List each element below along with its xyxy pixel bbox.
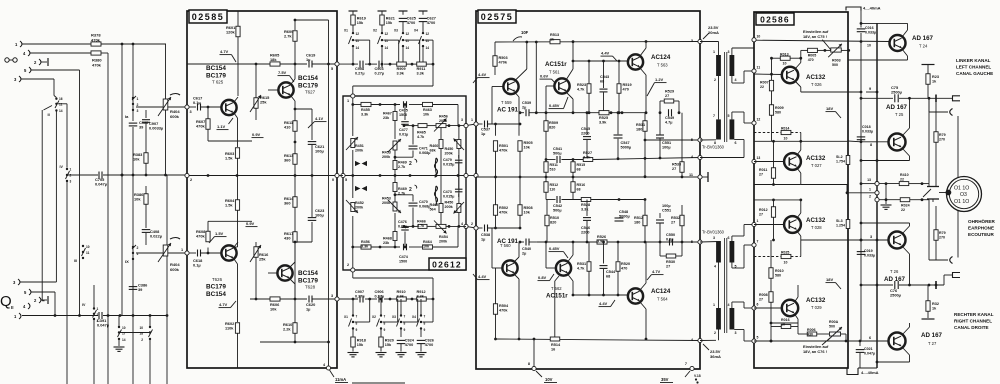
svg-text:470k: 470k (92, 62, 102, 67)
rail y177 inside 02575 (476, 175, 700, 178)
cable symbol (5, 58, 17, 62)
svg-text:AC132: AC132 (806, 297, 826, 304)
svg-text:C907: C907 (355, 290, 364, 294)
svg-text:4: 4 (728, 303, 730, 307)
svg-text:16: 16 (59, 97, 63, 101)
switch above C924 (392, 299, 418, 332)
svg-text:10: 10 (783, 62, 787, 66)
svg-text:11: 11 (385, 39, 389, 43)
capacitor C016 0.033u (857, 26, 876, 34)
svg-text:3.9k: 3.9k (397, 72, 405, 76)
capacitor C627 4700 top bank (419, 11, 436, 33)
wire y200 row pin2 (754, 199, 801, 202)
treble clef lower (435, 186, 438, 205)
svg-text:2.2k: 2.2k (283, 327, 291, 332)
svg-text:7: 7 (404, 315, 406, 319)
wire vertical x133 lower (132, 127, 135, 384)
svg-text:RIGHT CHANNEL: RIGHT CHANNEL (954, 319, 992, 324)
svg-text:5: 5 (345, 178, 347, 182)
node 9 stub (866, 87, 877, 92)
wire pot to box pin 3 (164, 44, 185, 176)
svg-text:R502: R502 (499, 206, 508, 210)
switch below C625 (394, 29, 420, 65)
svg-text:0.45V: 0.45V (549, 103, 560, 108)
svg-text:1: 1 (137, 97, 139, 101)
svg-text:3.3k: 3.3k (417, 295, 425, 299)
svg-text:11: 11 (86, 251, 90, 255)
svg-text:10: 10 (781, 322, 785, 326)
svg-text:R520: R520 (621, 262, 630, 266)
bass symbol upper (355, 161, 367, 166)
svg-text:10k: 10k (423, 113, 430, 117)
svg-text:500µ: 500µ (553, 209, 562, 213)
svg-text:4: 4 (461, 222, 463, 226)
resistor R512b 180 (634, 200, 647, 243)
svg-text:10k: 10k (524, 146, 531, 150)
resistor R455 3.3k (361, 102, 371, 116)
svg-text:6: 6 (757, 303, 759, 307)
svg-text:3.3k: 3.3k (583, 156, 591, 160)
wire switch II flipper left (42, 106, 52, 301)
svg-text:15k: 15k (357, 343, 364, 347)
node pin 4 bottom border 02585 (323, 363, 331, 370)
svg-text:1: 1 (757, 219, 759, 223)
EQ bus bottom y299 (339, 298, 434, 301)
transistor T24 AD167 (890, 35, 906, 51)
label 10uF pointer (513, 30, 529, 41)
svg-text:R012: R012 (759, 208, 768, 212)
wire rows pins 13 1 2 (846, 178, 880, 202)
svg-text:R465: R465 (417, 131, 426, 135)
svg-text:R79: R79 (939, 231, 946, 235)
svg-text:2: 2 (714, 331, 716, 335)
svg-text:3.3k: 3.3k (361, 113, 369, 117)
capacitor C926 4700 bottom bank (416, 329, 434, 357)
resistor R608 470k (196, 221, 252, 253)
wire switch IX to pot lower (136, 252, 163, 254)
capacitor C924 4700 bottom bank (396, 329, 415, 357)
svg-text:200k: 200k (445, 205, 454, 209)
svg-text:C479: C479 (443, 158, 452, 162)
label AC132 T027 (806, 155, 826, 168)
svg-text:0.27µ: 0.27µ (355, 72, 365, 76)
potentiometer R453b 200k (382, 191, 401, 213)
resistor R603 1.5k (225, 148, 240, 176)
svg-text:7: 7 (384, 315, 386, 319)
wire y184 row pin13 (754, 184, 801, 186)
svg-text:02612: 02612 (432, 260, 462, 270)
switch above R920 (372, 299, 398, 332)
label Einstellen upper (803, 29, 831, 50)
svg-text:R509: R509 (549, 121, 558, 125)
capacitor C549 4.7u (665, 109, 674, 124)
transistor T560 AC191 (502, 260, 517, 275)
svg-text:C471: C471 (419, 147, 428, 151)
resistor R386 10k (134, 186, 148, 204)
svg-text:12: 12 (356, 32, 360, 36)
svg-text:12: 12 (757, 118, 761, 122)
svg-text:18V, an C75 !: 18V, an C75 ! (803, 34, 827, 39)
switch II (48, 97, 63, 117)
svg-text:Tr-BV01360: Tr-BV01360 (702, 145, 725, 150)
svg-text:C470: C470 (419, 200, 428, 204)
node pin 3 on 02585 (185, 105, 192, 114)
svg-text:110: 110 (550, 187, 556, 191)
main output bus x877 (876, 23, 879, 368)
capacitor C018 0.033u (857, 125, 873, 140)
rail mid 02612 (343, 174, 466, 177)
svg-text:O1 1O: O1 1O (954, 199, 969, 205)
node pins 02586 left border (752, 34, 760, 42)
label T26 AD167 (884, 269, 906, 283)
svg-text:0.1µ: 0.1µ (193, 100, 201, 105)
svg-text:2200: 2200 (581, 231, 589, 235)
svg-text:R466: R466 (417, 220, 426, 224)
svg-text:3: 3 (713, 236, 715, 240)
svg-text:5: 5 (331, 67, 333, 71)
svg-text:R79: R79 (939, 133, 946, 137)
svg-text:1.754: 1.754 (836, 159, 845, 163)
svg-text:470k: 470k (499, 211, 508, 215)
node 11 ground stub (702, 172, 708, 182)
svg-text:4.7V: 4.7V (219, 302, 228, 307)
capacitor C385 39 (129, 120, 149, 130)
capacitor C546 2200 (581, 200, 591, 243)
svg-text:C474: C474 (399, 255, 409, 259)
svg-text:T 564: T 564 (657, 297, 668, 302)
svg-text:R511: R511 (550, 163, 558, 167)
svg-text:T 026: T 026 (811, 82, 822, 87)
label AD167 T24 (912, 35, 934, 49)
switch III (74, 245, 90, 263)
input terminal 5 (24, 67, 31, 73)
transistor T026 wires (754, 58, 861, 92)
svg-text:R909: R909 (397, 67, 406, 71)
svg-text:36mA: 36mA (710, 354, 721, 359)
svg-text:AC151r: AC151r (545, 61, 567, 68)
svg-text:R531: R531 (636, 123, 645, 127)
svg-text:3.3k: 3.3k (581, 208, 589, 212)
svg-text:3: 3 (331, 294, 333, 298)
transistor T029 wires (754, 285, 798, 324)
svg-text:R453: R453 (382, 197, 391, 201)
svg-text:R504: R504 (499, 304, 509, 308)
svg-text:18V: 18V (826, 106, 833, 111)
label OHRHOERER EARPHONE ECOUTEUR (968, 218, 995, 237)
wire row1 trimmer upper (801, 49, 850, 52)
wire y341 node6 row (754, 336, 889, 342)
connector vertical wires (957, 116, 959, 258)
resistor R79 270 upper (934, 102, 946, 187)
transistor T27 AD167 (889, 333, 906, 350)
svg-text:R508: R508 (524, 206, 533, 210)
svg-text:R455: R455 (361, 108, 370, 112)
svg-text:C541: C541 (553, 147, 562, 151)
label BC154 BC179 T627 (298, 75, 318, 95)
label AC124 T563 (651, 54, 671, 68)
main top rail 02575 y42 (495, 40, 700, 43)
svg-text:R920: R920 (385, 339, 394, 343)
svg-text:R516: R516 (577, 183, 586, 187)
svg-text:T 24: T 24 (919, 44, 928, 49)
input terminal 4 (23, 50, 30, 56)
capacitor C391 0.047u (97, 312, 110, 328)
label AC191 T560 (497, 238, 519, 248)
svg-text:C926: C926 (425, 339, 434, 343)
svg-text:C625: C625 (407, 17, 416, 21)
svg-text:C551: C551 (662, 141, 671, 145)
capacitor C76 2500u wire (861, 281, 944, 298)
label AC151r T561 (545, 61, 567, 75)
wire node5 y140 (644, 139, 700, 142)
label 4.7V upper (220, 49, 237, 62)
wire vertical x108 (107, 53, 109, 384)
resistor R912 3.3k (417, 290, 427, 301)
svg-text:68: 68 (577, 167, 581, 171)
svg-text:410: 410 (284, 125, 291, 130)
svg-text:O3: O3 (960, 192, 967, 198)
svg-text:4: 4 (735, 78, 737, 82)
svg-text:R523: R523 (577, 83, 586, 87)
DIN connector circle (939, 177, 982, 212)
transistor T625 BC154 (221, 100, 236, 115)
capacitor C545 2200 (581, 113, 591, 160)
bottom rail y339 02575 (494, 338, 700, 341)
capacitor C470 0.068u (394, 193, 431, 227)
vertical feed x352 inside 02612 (351, 98, 354, 268)
svg-text:T628: T628 (305, 285, 316, 290)
svg-text:AC 191: AC 191 (497, 107, 519, 114)
svg-text:Tr-BV01360: Tr-BV01360 (702, 230, 725, 235)
svg-text:0.6V: 0.6V (540, 74, 549, 79)
wire x536 link (535, 42, 538, 114)
wire terminal4 (30, 52, 108, 54)
switch IX (125, 245, 139, 264)
label 4.4V upper left (473, 72, 490, 83)
svg-text:27: 27 (759, 172, 763, 176)
svg-text:9: 9 (404, 328, 406, 332)
svg-text:180: 180 (634, 221, 640, 225)
earphone jack plug top (929, 95, 960, 103)
svg-text:1500: 1500 (399, 113, 407, 117)
svg-text:4....40mA: 4....40mA (861, 370, 879, 375)
svg-text:100µ: 100µ (662, 204, 671, 208)
resistor R520 470 (616, 242, 630, 295)
resistor R509 820 (544, 113, 558, 159)
label 23.5V 20mA (703, 25, 719, 39)
svg-text:25k: 25k (260, 100, 267, 105)
potentiometer R616 25k (250, 242, 269, 299)
svg-text:C477: C477 (399, 128, 408, 132)
resistor R510 820 (545, 200, 559, 243)
label 4.4V lower left (473, 274, 490, 280)
svg-text:R528: R528 (581, 203, 590, 207)
resistor R465 4.7k (417, 124, 427, 139)
svg-text:9: 9 (424, 328, 426, 332)
transistor T25 wires (861, 98, 910, 160)
svg-text:C475: C475 (399, 109, 408, 113)
resistor R516 68 (571, 177, 585, 200)
svg-text:68: 68 (600, 80, 604, 84)
label AC132 T028 (806, 217, 826, 230)
module box 02575 (476, 10, 700, 369)
svg-text:R451: R451 (355, 144, 364, 148)
svg-text:R532: R532 (671, 216, 680, 220)
svg-text:R513: R513 (550, 33, 559, 37)
svg-text:R525: R525 (599, 116, 608, 120)
resistor R503 470k (493, 42, 508, 75)
svg-text:1: 1 (70, 168, 72, 172)
svg-text:X4: X4 (414, 29, 418, 33)
input terminal 1 lower (14, 313, 21, 319)
svg-text:12: 12 (385, 32, 389, 36)
capacitor C476 0.01u (398, 220, 409, 247)
svg-text:C906: C906 (375, 290, 384, 294)
capacitor C544 68 (600, 242, 616, 295)
resistor R016 10 (771, 318, 798, 329)
svg-text:13: 13 (757, 156, 761, 160)
label 1.1V (217, 118, 234, 130)
svg-text:270: 270 (939, 235, 945, 239)
svg-text:6: 6 (728, 236, 730, 240)
svg-text:BC154: BC154 (206, 291, 226, 298)
svg-text:OHRHÖRER: OHRHÖRER (968, 218, 995, 224)
svg-text:BC179: BC179 (206, 73, 226, 80)
node pin 5 on 02585 right y64 (331, 62, 339, 71)
svg-text:13: 13 (867, 178, 871, 182)
label W8 dots (694, 374, 701, 384)
label 4.1V (308, 116, 327, 128)
chain y125 upper with R465 and pot R456 (403, 124, 466, 127)
capacitor C619 1u (306, 53, 337, 68)
svg-text:27: 27 (759, 297, 763, 301)
svg-text:4.4V: 4.4V (478, 72, 487, 77)
wire y141 T25 base (848, 140, 889, 147)
svg-text:R468: R468 (383, 237, 392, 241)
resistor R32 1k (922, 285, 939, 319)
resistor R619 15k top bank (349, 11, 366, 33)
svg-text:3.3k: 3.3k (361, 245, 369, 249)
svg-text:IV: IV (60, 165, 64, 169)
svg-text:EARPHONE: EARPHONE (968, 226, 994, 231)
svg-text:T 563: T 563 (657, 63, 668, 68)
svg-text:0.27µ: 0.27µ (355, 295, 365, 299)
potentiometer R456 200k (434, 115, 448, 132)
resistor R918 15k bottom bank (348, 329, 366, 357)
svg-text:T 562: T 562 (551, 286, 562, 291)
loop 27 resistor upper (659, 101, 681, 114)
resistor R511 510 (544, 160, 558, 178)
svg-text:1500: 1500 (399, 260, 407, 264)
capacitor C475 1500 (399, 101, 408, 117)
resistor R23 1k (922, 65, 939, 99)
svg-text:27: 27 (672, 167, 676, 171)
svg-text:C016: C016 (865, 26, 874, 30)
svg-text:C021: C021 (864, 347, 873, 351)
wire x847 segment (846, 184, 848, 193)
node pins y228 between boxes (461, 222, 478, 230)
svg-text:23k: 23k (383, 241, 390, 245)
capacitor C547 5000u (614, 111, 632, 158)
svg-text:7: 7 (757, 240, 759, 244)
label Einstellen lower (803, 338, 830, 354)
resistor R508 10k (518, 177, 533, 228)
svg-text:10: 10 (867, 44, 871, 48)
label AD167 T25 (886, 104, 908, 117)
resistor R606 10k (270, 297, 280, 312)
svg-text:R505: R505 (524, 141, 533, 145)
svg-text:R32: R32 (932, 302, 939, 306)
svg-text:IV: IV (82, 303, 86, 307)
resistor R514 16 (550, 337, 561, 352)
svg-text:R910: R910 (397, 290, 406, 294)
resistor R009 580 (769, 105, 783, 141)
svg-text:180: 180 (636, 128, 642, 132)
svg-text:C019: C019 (864, 249, 873, 253)
wire y64 inside 02585 (187, 63, 307, 66)
svg-text:8: 8 (384, 322, 386, 326)
resistor R532b 27 (671, 205, 684, 242)
label T626 BC179 BC154 (206, 277, 226, 298)
component Si-3 1254 (836, 219, 850, 229)
ground pin2 row (881, 184, 892, 210)
svg-text:R514: R514 (551, 343, 561, 347)
svg-text:R011: R011 (759, 168, 767, 172)
mid wire y242 dots (545, 241, 684, 244)
svg-text:Si-3: Si-3 (836, 219, 843, 223)
capacitor C625 4700 top bank (399, 11, 416, 33)
svg-text:R469: R469 (398, 161, 407, 165)
svg-text:35V: 35V (661, 377, 669, 382)
resistor R610 2.2k (283, 299, 297, 342)
svg-text:R016: R016 (781, 318, 790, 322)
resistor R010 580 (769, 240, 784, 292)
wire x860 lower (0, 0, 1, 1)
svg-text:120k: 120k (226, 30, 235, 35)
transistor T26 AD167 (889, 232, 906, 249)
svg-text:4....40mA: 4....40mA (863, 6, 881, 11)
resistor R008 27 (759, 292, 773, 343)
transistor T027 wires (754, 140, 848, 185)
svg-text:5: 5 (757, 336, 759, 340)
svg-text:1: 1 (869, 187, 871, 191)
svg-text:200k: 200k (439, 240, 448, 244)
mid wire y242 02575 lower (536, 241, 700, 243)
wires transformer upper (700, 42, 754, 158)
svg-text:R008: R008 (759, 293, 768, 297)
wire switch Ia to pot (136, 106, 163, 108)
label RECHTER KANAL (954, 312, 994, 330)
svg-text:R005: R005 (808, 54, 817, 58)
svg-text:AD 167: AD 167 (886, 104, 908, 111)
transistor T627 wires (268, 64, 295, 121)
svg-text:4.7V: 4.7V (220, 49, 229, 54)
wire EQ bottom link to 02612 (353, 272, 433, 299)
svg-text:5: 5 (728, 114, 730, 118)
svg-text:7: 7 (713, 114, 715, 118)
svg-text:200k: 200k (439, 119, 448, 123)
svg-text:R621: R621 (386, 17, 395, 21)
label AC124 T564 (651, 288, 671, 302)
svg-text:T 029: T 029 (811, 305, 822, 310)
wires transformer lower (700, 225, 754, 342)
transistor T027 AC132 (784, 153, 801, 170)
switch below R621 (373, 29, 399, 65)
component chain y105 upper (353, 103, 458, 125)
label 0.9V lower (246, 221, 258, 227)
svg-text:C540: C540 (522, 247, 531, 251)
svg-text:68: 68 (577, 187, 581, 191)
